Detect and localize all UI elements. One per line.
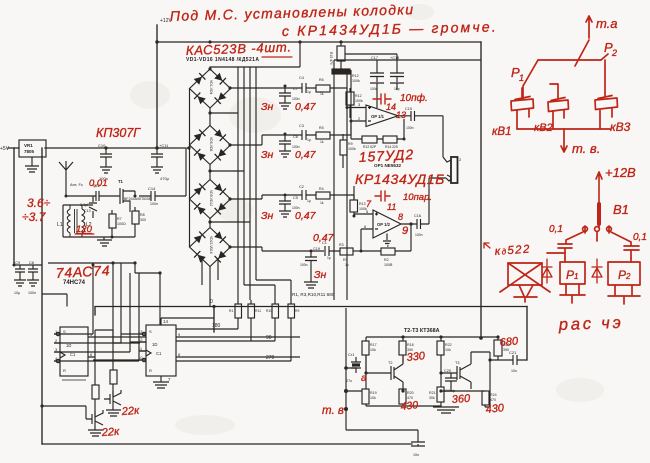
svg-text:Зн: Зн [314,269,326,281]
svg-text:R17: R17 [370,343,377,347]
svg-text:300: 300 [140,218,146,222]
svg-text:рас чэ: рас чэ [558,314,624,334]
svg-text:R2: R2 [384,258,389,262]
svg-text:R4: R4 [319,187,324,191]
wire bridge feed drop [299,42,301,67]
svg-text:10k: 10k [445,348,451,352]
svg-text:270: 270 [266,355,275,361]
svg-text:22к: 22к [120,405,140,418]
svg-text:R12: R12 [355,94,362,98]
resistor R19 [362,389,369,406]
svg-text:1: 1 [519,73,524,83]
svg-text:0: 0 [210,299,213,305]
svg-text:кд522: кд522 [494,244,531,258]
svg-text:157УД2: 157УД2 [358,146,414,165]
svg-text:100n: 100n [150,202,158,206]
diode bridge VD1-VD4 [190,69,231,108]
svg-text:C1: C1 [70,352,76,357]
capacitor C1 [325,246,340,256]
resistor R12f [362,136,377,143]
resistor R13u row3 [350,186,358,216]
svg-text:30k: 30k [429,396,435,400]
resistor R7 [109,210,116,238]
switch common [538,40,601,66]
speaker kV2 [548,84,569,129]
svg-text:OP 1/1: OP 1/1 [371,114,385,119]
svg-text:C13: C13 [84,209,91,213]
svg-text:0,47: 0,47 [313,232,335,244]
diode bridge VD9-VD12 [190,180,231,219]
svg-text:100В: 100В [384,263,393,267]
underline 4sht [262,56,292,58]
connector J [447,157,458,183]
wire speakers bottom [517,128,610,130]
svg-text:100n: 100n [415,233,423,237]
svg-text:R9: R9 [348,142,353,146]
underline 120 [75,233,94,235]
svg-text:C14: C14 [148,186,156,191]
resistor R21 [437,387,444,407]
svg-text:BF244A/КП303Е: BF244A/КП303Е [124,197,152,201]
wire t3 collector out [471,352,490,360]
wire ff outputs [176,329,291,361]
svg-text:L1: L1 [57,222,63,228]
svg-text:100n: 100n [370,87,378,91]
svg-text:R11: R11 [255,309,261,313]
svg-text:10n: 10n [511,369,517,373]
wire bridge feed [210,67,300,69]
wire amp bottom [346,360,490,407]
pencil capacitor op1 [373,94,391,104]
resistor R23 [494,337,502,360]
switch P2 wire [601,54,608,60]
resistor R10 row1 [346,88,354,118]
relay P2 box [608,262,640,285]
capacitor C6 [279,135,291,157]
capacitor C18 [370,60,404,96]
wire op1 input bus [347,70,351,300]
svg-text:VD5-VD8: VD5-VD8 [209,137,213,151]
svg-text:10μ: 10μ [14,291,20,295]
svg-text:т. в.: т. в. [572,141,600,156]
svg-text:Cr1: Cr1 [348,352,355,357]
resistor R8 [132,207,139,237]
svg-text:90: 90 [266,335,272,341]
svg-text:14: 14 [386,102,396,112]
wire tank top [63,205,93,237]
transformer core [75,209,78,233]
resistor R22 [437,337,444,387]
svg-text:C6: C6 [293,135,298,139]
svg-text:T2: T2 [388,361,392,365]
svg-text:R7: R7 [117,217,122,221]
inductor L1 [67,205,70,237]
svg-text:470μ: 470μ [160,176,170,181]
svg-text:C4: C4 [299,76,304,80]
resistor R9 row2 [340,134,347,168]
svg-text:OP 1/2: OP 1/2 [377,222,391,227]
relay P1 box [560,262,585,284]
svg-text:VD1-VD16 1N4148 /КД521А: VD1-VD16 1N4148 /КД521А [186,57,259,63]
svg-text:S: S [63,329,66,334]
svg-text:1μ: 1μ [307,90,311,94]
resistor Rq2 [92,345,99,416]
svg-text:C15: C15 [405,107,412,111]
svg-text:R1, R3,R10,R11 680: R1, R3,R10,R11 680 [292,292,335,297]
svg-text:9: 9 [402,225,408,237]
svg-text:R3: R3 [339,243,344,247]
wire phase-0 long horizontal [95,307,527,333]
ground input stage [63,237,135,246]
svg-text:1μ: 1μ [307,138,311,142]
svg-text:1D: 1D [66,343,71,348]
transistor Q1 [104,390,121,416]
svg-text:C17: C17 [371,56,378,60]
resistor R18 [399,337,406,363]
svg-text:330: 330 [406,350,426,364]
wire +5V rail [8,147,186,149]
svg-text:1μ: 1μ [307,199,311,203]
svg-text:T1: T1 [118,179,124,184]
svg-text:C7: C7 [293,87,298,91]
capacitor C10 [100,148,112,173]
svg-text:120: 120 [76,224,93,235]
wire q feeds [42,330,113,419]
capacitor C5 [279,195,291,217]
svg-text:R1: R1 [229,309,233,313]
resistor R5 [316,121,358,139]
svg-text:C8: C8 [29,261,34,265]
svg-text:360: 360 [451,393,471,406]
svg-text:S: S [149,329,152,334]
svg-text:C2: C2 [299,185,304,189]
svg-text:10пф.: 10пф. [400,92,428,104]
capacitor C2 [302,190,316,200]
svg-text:VR1: VR1 [24,143,33,148]
svg-text:470: 470 [490,398,496,402]
wire +12V top rail [157,41,481,43]
arrow kd522 [484,243,490,248]
diode D2 [592,259,602,283]
scan smudges [130,4,604,435]
wire t2 base bias [366,355,380,373]
capacitor C14 [139,148,186,201]
wire B1 feed arrow [596,172,602,228]
resistor R20 [399,389,406,406]
svg-text:2: 2 [611,48,617,58]
resistor R15 [332,42,397,74]
resistor R3a [340,248,361,255]
svg-text:430: 430 [400,399,419,413]
svg-text:0,47: 0,47 [295,149,317,161]
svg-text:+C9: +C9 [13,261,20,265]
capacitor 0,1 left [558,232,583,258]
svg-text:R18: R18 [407,343,414,347]
antenna [59,161,73,190]
svg-text:т.а: т.а [596,16,618,31]
svg-text:+5V: +5V [0,146,10,152]
svg-text:R21: R21 [429,391,436,395]
ground amp [433,407,459,413]
resistor R1 col [235,300,242,329]
transistor T3 [446,352,471,389]
wire left supply bus [13,148,15,265]
resistor R4 [316,192,354,200]
svg-text:R: R [63,368,66,373]
connector circles [583,226,612,241]
speaker kV1 [511,88,534,129]
resistor R14f [351,119,404,143]
svg-text:180: 180 [212,323,221,329]
svg-text:100k: 100k [348,147,356,151]
relay P1 legs [560,284,585,303]
svg-text:8: 8 [398,212,403,222]
wire ff clock feeds [42,263,160,361]
svg-text:7805: 7805 [24,149,35,154]
resistor R9b col [288,286,295,361]
svg-text:12: 12 [138,337,143,342]
svg-text:КР1434УД1Б: КР1434УД1Б [355,171,445,187]
capacitor C19 [304,251,318,288]
flip-flop U2a 74HC74 [54,327,146,380]
capacitor C17 [370,60,384,82]
capacitor C11 [151,148,163,173]
svg-text:T3: T3 [455,361,459,365]
svg-text:Т2-Т3 КТ368А: Т2-Т3 КТ368А [404,328,440,334]
capacitor C9 [14,265,42,286]
svg-text:0,01: 0,01 [89,178,108,189]
svg-text:0,1: 0,1 [549,224,563,235]
svg-text:1k: 1k [320,140,324,144]
svg-text:R10: R10 [266,309,272,313]
svg-text:+12В: +12В [605,165,636,180]
wire row4 tap [231,247,325,251]
resistor Rq1 [110,330,117,396]
svg-text:1k: 1k [320,92,324,96]
pencil capacitor op2 [375,191,390,201]
svg-text:C20: C20 [444,369,451,373]
capacitor C8 [27,265,39,286]
capacitor C13 [89,196,97,218]
svg-text:R20: R20 [407,391,414,395]
svg-text:КП307Г: КП307Г [96,126,141,140]
svg-text:10k: 10k [370,396,376,400]
svg-text:13: 13 [396,110,406,120]
svg-text:C10: C10 [98,143,106,148]
svg-text:R22: R22 [445,343,452,347]
svg-text:Зн: Зн [261,101,273,113]
svg-text:+C11: +C11 [159,143,169,148]
wire relay2 top [630,258,632,262]
svg-text:VD1-VD4: VD1-VD4 [209,80,213,94]
transistor Q2 [86,410,103,436]
wire bridge bottom taps [202,113,250,307]
svg-text:27c: 27c [346,379,352,383]
svg-text:1μ: 1μ [327,256,331,260]
wire right border [480,42,482,338]
svg-text:R13: R13 [359,202,366,206]
capacitor 0,1 right [611,232,639,258]
capacitor C3 [302,130,316,140]
capacitor C7 [279,88,291,109]
node tv arrow [561,129,567,152]
capacitor C20 [445,373,457,387]
svg-text:C5: C5 [293,196,298,200]
svg-text:C19: C19 [313,247,320,251]
resistor R10b col [272,286,279,341]
wire ff tower links [93,263,214,360]
svg-text:R15 470: R15 470 [329,52,333,65]
svg-text:C21: C21 [509,350,517,355]
svg-text:10k: 10k [370,348,376,352]
flip-flop U2b 74HC74 [140,318,300,388]
svg-text:3.6÷: 3.6÷ [27,196,51,210]
svg-text:Зн: Зн [261,149,273,161]
svg-text:R9: R9 [295,309,299,313]
svg-text:В1: В1 [613,202,629,217]
wire bottom long [42,443,412,445]
svg-text:74HC74: 74HC74 [63,280,86,286]
diode bridge VD13-VD16 [190,228,231,267]
wire +12V vertical feed [156,25,158,148]
svg-text:R5: R5 [319,126,324,130]
svg-text:C3: C3 [299,124,304,128]
svg-text:0,47: 0,47 [295,210,317,222]
wire t3 base bias [441,373,485,391]
svg-text:R12: R12 [352,74,359,78]
svg-text:100n: 100n [28,291,36,295]
svg-text:R6: R6 [319,78,324,82]
svg-text:R8: R8 [140,213,145,217]
svg-text:т. в: т. в [322,405,344,417]
transistor T1 [117,188,135,212]
resistor R17 [362,341,369,389]
capacitor C16 [411,178,451,251]
svg-text:22к: 22к [100,426,120,439]
svg-text:10p: 10p [394,87,400,91]
wire amp left column [346,308,425,446]
svg-text:VD9-VD12: VD9-VD12 [209,190,213,206]
resistor R6 [316,85,358,108]
svg-text:1D: 1D [152,342,157,347]
svg-text:680: 680 [499,335,519,349]
svg-text:430: 430 [485,402,505,416]
wire mid bus [334,60,481,300]
diode D1 [542,259,552,283]
amplifier label rail [366,337,498,341]
wire row1 tap [231,87,303,89]
svg-text:100пф: 100пф [444,389,455,393]
resistor R2 [361,248,411,255]
crossed box [500,263,550,302]
svg-text:100k: 100k [352,79,360,83]
svg-text:C16: C16 [414,214,421,218]
svg-text:Ант, Fc: Ант, Fc [70,182,83,187]
capacitor relay1 top [547,253,565,262]
svg-text:10n: 10n [413,453,419,457]
svg-text:14: 14 [163,319,168,324]
capacitor C15 [409,111,451,162]
diode bridge VD5-VD8 [190,126,231,165]
switch P1 [523,60,538,99]
svg-text:1k: 1k [320,201,324,205]
svg-text:R24: R24 [490,393,497,397]
svg-text:1к: 1к [345,263,349,267]
svg-text:кВ2: кВ2 [534,122,553,134]
capacitor C21 [490,355,527,365]
svg-text:10пар.: 10пар. [403,192,432,203]
svg-text:R3: R3 [343,258,348,262]
svg-text:74АС74: 74АС74 [55,262,110,281]
wire row2 tap [231,135,303,145]
capacitor C4 [302,83,316,93]
wire bridge links [187,89,210,248]
speaker kV3 [595,60,618,129]
svg-text:3-9pF: 3-9pF [80,203,90,207]
svg-text:C1: C1 [156,351,162,356]
wire left bus x44 [41,148,43,444]
inductor L2 [82,205,85,237]
svg-text:100n: 100n [406,126,414,130]
svg-text:кВ3: кВ3 [610,120,631,134]
crystal Cr1 [351,357,361,373]
svg-text:R: R [149,368,152,373]
op-amp U1b [354,210,411,251]
svg-text:÷3.7: ÷3.7 [22,210,47,224]
svg-text:Зн: Зн [261,210,273,222]
node ta arrow [586,16,592,38]
svg-text:кВ1: кВ1 [492,126,512,138]
fuse B1 thick [597,204,601,224]
svg-text:13: 13 [138,329,143,334]
wire bus verticals [238,67,291,300]
svg-text:10: 10 [138,355,143,360]
resistor R11 col [248,300,255,341]
svg-text:R19: R19 [370,391,377,395]
wire output riser [526,307,528,361]
capacitor C12 [66,190,117,201]
svg-text:0,47: 0,47 [295,101,317,113]
regulator VR1 7805 [19,140,46,172]
svg-text:11: 11 [387,202,396,212]
svg-text:0,1: 0,1 [633,232,647,243]
resistor R24 [482,391,489,407]
wire row3 tap [231,195,303,199]
svg-text:VD13-VD16: VD13-VD16 [209,236,213,254]
svg-text:а: а [361,373,367,384]
svg-text:100Ω: 100Ω [117,222,126,226]
svg-text:100n: 100n [300,263,308,267]
svg-text:+C18: +C18 [390,56,399,60]
relay P2 legs [608,285,640,304]
op-amp U1a [358,96,409,127]
transistor T2 [380,356,403,389]
